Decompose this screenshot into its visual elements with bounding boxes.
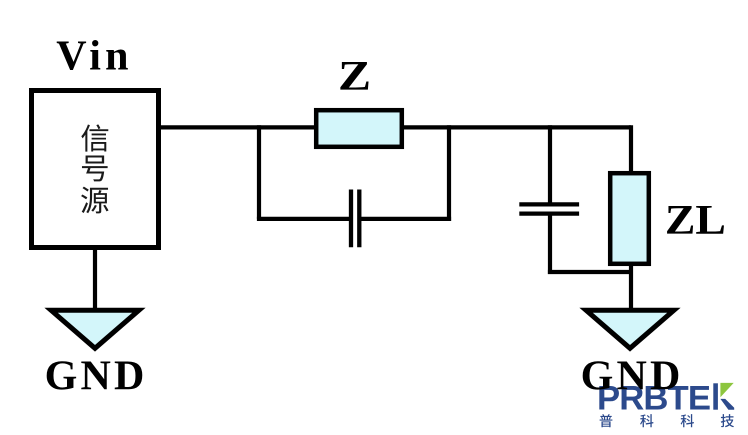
wire bottom2 <box>548 270 631 274</box>
capacitor C2 bottom plate <box>519 211 579 215</box>
logo K green flag <box>720 383 733 397</box>
svg-text:Z: Z <box>338 53 371 100</box>
svg-text:GND: GND <box>581 354 684 400</box>
wire right branch up <box>447 125 451 221</box>
wire cap2 branch upper <box>548 125 552 204</box>
resistor Z <box>316 110 402 147</box>
logo K stem <box>713 383 718 409</box>
svg-text:ZL: ZL <box>665 197 726 244</box>
capacitor C2 top plate <box>519 202 579 206</box>
wire left branch down <box>257 125 261 219</box>
svg-text:Vin: Vin <box>56 34 132 80</box>
wire bottom left segment <box>257 217 351 221</box>
wire box to left ground <box>93 248 97 310</box>
logo subtitle 普科科技 <box>600 414 734 427</box>
wire bottom right segment <box>359 217 451 221</box>
svg-text:GND: GND <box>45 354 148 400</box>
wire ZL top <box>629 125 633 175</box>
resistor ZL <box>610 173 649 264</box>
capacitor C1 left plate <box>349 190 353 248</box>
信号源 label <box>81 124 108 213</box>
ground right <box>586 310 674 348</box>
signal source box <box>32 91 159 248</box>
ground left <box>51 310 139 348</box>
capacitor C1 right plate <box>357 190 361 248</box>
main wire <box>159 125 631 129</box>
wire ZL bottom <box>629 263 633 310</box>
wire cap2 branch lower <box>548 214 552 274</box>
logo K leg <box>720 399 734 410</box>
